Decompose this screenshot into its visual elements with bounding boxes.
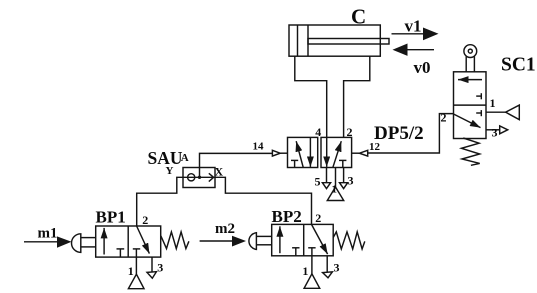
svg-text:v1: v1 [405, 17, 422, 36]
DP5/2 left box blocked port T [291, 160, 298, 167]
svg-text:DP5/2: DP5/2 [374, 123, 424, 144]
svg-text:2: 2 [315, 211, 321, 225]
BP2 left box up arrow [279, 226, 281, 253]
svg-text:m1: m1 [38, 226, 58, 242]
BP1 right box blocked port 1 T bar [133, 248, 140, 250]
SC1 top box arrow [458, 79, 482, 81]
arrow v0 [393, 44, 435, 77]
arrow m1 [24, 226, 72, 248]
valve BP2 body [272, 224, 334, 255]
BP1 left box blocked port T [117, 249, 125, 257]
SC1 return spring [461, 138, 479, 165]
DP5/2 port 5 exhaust [322, 168, 330, 189]
svg-text:14: 14 [253, 141, 265, 153]
DP5/2 right box diagonal arrow [333, 141, 341, 167]
svg-text:1: 1 [332, 184, 338, 196]
DP5/2 pilot port 12 arrow [352, 150, 368, 156]
BP2 right box diagonal arrow 2 to 3 [312, 224, 328, 254]
cylinder C piston rod [308, 39, 389, 45]
svg-text:Y: Y [166, 165, 174, 177]
SC1 top box blocked port T [476, 93, 481, 99]
BP2 right box blocked port 1 T bar [308, 247, 315, 249]
BP1 left box up arrow [103, 228, 105, 255]
wire SAU output to pilot 14 [200, 153, 273, 177]
svg-text:1: 1 [302, 264, 308, 278]
valve DP5/2 body right box [321, 137, 352, 167]
BP1 right box diagonal arrow 2 to 3 [137, 226, 150, 254]
svg-text:1: 1 [490, 96, 496, 110]
wire SAU port Y to BP1 port 2 [137, 177, 183, 226]
BP2 port 1 pressure source [304, 248, 320, 288]
arrow m2 [200, 221, 246, 247]
svg-text:BP1: BP1 [96, 208, 126, 227]
SC1 bottom box blocked port T [476, 110, 481, 116]
svg-text:2: 2 [142, 213, 148, 227]
svg-text:m2: m2 [215, 221, 235, 237]
svg-text:4: 4 [315, 125, 321, 139]
BP2 port 3 exhaust [323, 256, 333, 278]
svg-text:3: 3 [157, 261, 163, 275]
svg-text:C: C [351, 5, 366, 29]
SC1 port 3 exhaust [486, 126, 508, 134]
wire cylinder rod-end to DP5/2 port 2 [344, 56, 370, 137]
wire SC1 port 2 to pilot 12 [368, 114, 454, 153]
BP2 push button [249, 233, 272, 250]
svg-text:SC1: SC1 [501, 55, 536, 76]
svg-text:2: 2 [347, 125, 353, 139]
valve SC1 body [454, 72, 487, 139]
svg-text:2: 2 [441, 111, 447, 125]
BP1 return spring [161, 232, 189, 249]
svg-text:v0: v0 [414, 58, 431, 77]
svg-text:3: 3 [334, 260, 340, 274]
BP1 port 1 pressure source [128, 249, 144, 289]
SC1 port 1 pressure source [486, 105, 519, 120]
BP2 left box blocked port T [292, 248, 299, 256]
DP5/2 left box diagonal arrow [296, 141, 303, 167]
wire cylinder cap-end to DP5/2 port 4 [295, 56, 327, 137]
DP5/2 right box blocked port T [339, 160, 346, 167]
cylinder C body [289, 25, 380, 56]
BP1 push button [72, 234, 96, 253]
svg-text:5: 5 [315, 175, 321, 189]
SAU ball [188, 174, 195, 181]
BP1 port 3 exhaust [147, 257, 156, 278]
svg-text:BP2: BP2 [272, 207, 302, 226]
valve SC1 roller [464, 45, 477, 72]
DP5/2 right box down arrow (port 4 path) [326, 138, 328, 167]
valve BP1 body [96, 226, 161, 257]
svg-text:A: A [181, 152, 189, 164]
DP5/2 left box down arrow [309, 138, 311, 167]
valve DP5/2 body left box [288, 137, 318, 167]
svg-text:1: 1 [128, 264, 134, 278]
svg-text:3: 3 [492, 126, 498, 140]
wire SAU port X to BP2 port 2 [215, 177, 312, 224]
svg-text:3: 3 [348, 174, 354, 188]
SC1 bottom box diagonal arrow 2 to 3 [454, 114, 481, 128]
BP2 return spring [333, 232, 365, 249]
shuttle valve SAU body [183, 168, 215, 188]
DP5/2 pilot port 14 arrow [272, 150, 287, 156]
SAU check chevron [209, 173, 214, 181]
DP5/2 port 3 exhaust [340, 168, 348, 189]
svg-text:X: X [215, 165, 224, 179]
arrow v1 [392, 17, 439, 41]
SAU junction dot [198, 176, 201, 179]
DP5/2 port 1 pressure source [327, 168, 343, 201]
